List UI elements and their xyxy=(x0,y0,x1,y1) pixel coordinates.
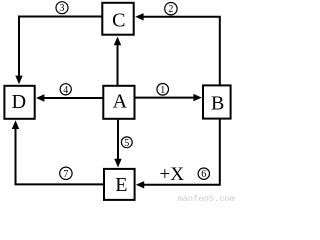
circled number 2 xyxy=(165,3,177,16)
arrowhead into E right xyxy=(136,181,144,188)
circled number 5 xyxy=(121,137,132,149)
arrowhead into E top xyxy=(114,159,121,168)
svg-text:2: 2 xyxy=(168,4,173,15)
wire 4: A to D xyxy=(44,97,104,99)
block C xyxy=(102,3,133,35)
svg-text:manfen5.com: manfen5.com xyxy=(178,194,235,203)
block D xyxy=(4,86,34,119)
circled number 7 xyxy=(60,167,72,180)
block B xyxy=(203,85,231,118)
svg-text:4: 4 xyxy=(63,85,68,96)
arrowhead into D bottom xyxy=(12,120,19,129)
svg-text:D: D xyxy=(12,91,26,113)
arrowhead into D top xyxy=(15,76,22,85)
arrowhead into C bottom xyxy=(114,37,121,46)
wire A to C xyxy=(117,44,119,85)
wire 2: B up and left to C xyxy=(143,17,220,85)
svg-text:6: 6 xyxy=(201,169,206,180)
svg-text:7: 7 xyxy=(63,169,68,180)
wire 6: B down and left to E xyxy=(143,119,220,185)
svg-text:C: C xyxy=(112,9,125,31)
svg-text:+X: +X xyxy=(160,164,185,185)
wire 7: E left and up to D xyxy=(16,128,104,184)
circled number 6 xyxy=(198,168,209,180)
circled number 4 xyxy=(60,84,71,96)
block E xyxy=(104,169,135,200)
svg-text:3: 3 xyxy=(60,3,65,14)
svg-text:B: B xyxy=(211,92,224,114)
svg-text:E: E xyxy=(115,174,127,196)
circled number 3 xyxy=(56,2,68,15)
block A xyxy=(103,86,134,119)
svg-text:1: 1 xyxy=(160,85,165,96)
arrowhead into B left xyxy=(193,94,201,101)
svg-text:5: 5 xyxy=(124,138,129,149)
wire 1: A to B xyxy=(135,97,195,99)
wire 5: A to E xyxy=(117,120,119,160)
wire 3: C left and down to D xyxy=(19,17,102,77)
circled number 1 xyxy=(157,84,169,96)
arrowhead into D right xyxy=(36,94,44,101)
svg-text:A: A xyxy=(113,90,128,112)
arrowhead into C right xyxy=(135,13,143,20)
